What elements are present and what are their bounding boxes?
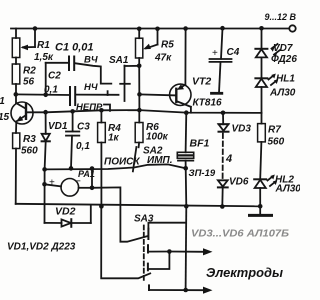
resistor R4 1k: [98, 108, 122, 206]
wire PA1 riser: [91, 169, 93, 188]
svg-text:С4: С4: [227, 47, 240, 58]
wire C2 to contact NCh: [76, 94, 119, 96]
svg-text:56: 56: [23, 77, 35, 88]
node PA1 output junction: [90, 186, 95, 191]
node column junction 1: [42, 167, 47, 172]
wire top power rail: [11, 28, 289, 30]
node bottom junction VD6: [220, 204, 225, 209]
node collector junction of R2: [14, 92, 19, 97]
switch SA1: [109, 55, 139, 101]
wire VT2 base: [140, 94, 177, 95]
svg-text:560: 560: [21, 146, 38, 157]
node R6 top junction: [137, 108, 142, 113]
svg-text:R5: R5: [161, 40, 174, 51]
wire C1 branch vertical: [45, 63, 47, 95]
wire electrode arrow middle: [167, 248, 212, 255]
resistor R3 560: [13, 133, 39, 204]
wire VD1 to PA1 column: [44, 169, 46, 223]
node bottom junction R4 column: [99, 204, 104, 209]
node rail junction dots: [33, 26, 264, 31]
diode VD1: [42, 110, 68, 170]
resistor R7 560: [258, 113, 285, 179]
capacitor C2 0,1: [44, 71, 75, 106]
sounder BF1 ZP-19: [177, 110, 216, 179]
node column junction 2: [42, 182, 47, 187]
node PA1 riser junction: [90, 166, 95, 171]
wire SA2 pole line: [45, 164, 186, 169]
wire R5 to base bus: [138, 66, 140, 110]
svg-text:ЗП-19: ЗП-19: [189, 168, 216, 179]
svg-text:НЧ: НЧ: [84, 82, 98, 93]
svg-text:100к: 100к: [146, 132, 169, 143]
svg-text:VD3: VD3: [232, 124, 252, 135]
svg-text:SA1: SA1: [109, 55, 129, 66]
svg-text:С3: С3: [77, 122, 90, 133]
resistor R6 100k: [135, 110, 168, 147]
node C1 branch junction: [43, 93, 48, 98]
node bottom junction ground: [258, 204, 263, 209]
svg-text:ФД26: ФД26: [271, 54, 297, 65]
wire output bus: [185, 168, 188, 206]
svg-text:+: +: [49, 178, 55, 189]
wire VT1 collector to C1/C2: [16, 93, 70, 96]
wire main base bus: [26, 110, 262, 113]
diode VD2: [45, 206, 91, 227]
svg-text:АЛ30: АЛ30: [275, 184, 301, 195]
node BF1 bottom junction: [183, 166, 188, 171]
svg-text:0,1: 0,1: [44, 85, 58, 96]
transistor VT1 KT315: [0, 94, 33, 133]
LED HL1 AL30: [255, 74, 295, 113]
wire C1 to contact VCh: [75, 63, 112, 83]
svg-text:HL1: HL1: [276, 74, 295, 85]
svg-text:47к: 47к: [154, 53, 172, 64]
svg-text:VD7: VD7: [273, 43, 293, 54]
wire electrode arrow bottom: [149, 287, 213, 294]
node VT2 base junction: [137, 92, 142, 97]
capacitor C3 0,1: [66, 109, 90, 168]
svg-text:КТ816: КТ816: [193, 98, 223, 109]
resistor R1 1,5k potentiometer: [12, 29, 54, 65]
svg-text:VT1: VT1: [0, 96, 5, 107]
svg-text:VD3...VD6 АЛ107Б: VD3...VD6 АЛ107Б: [191, 229, 289, 240]
svg-text:R2: R2: [23, 66, 36, 77]
svg-text:ВЧ: ВЧ: [84, 55, 98, 66]
capacitor C4 electrolytic: [210, 28, 240, 93]
wire bottom common: [16, 204, 261, 207]
svg-text:R1: R1: [37, 40, 50, 51]
resistor R2 56: [12, 64, 36, 94]
switch SA2 lever: [104, 146, 173, 172]
transistor VT2 KT816: [170, 29, 222, 113]
svg-text:+: +: [212, 48, 218, 59]
svg-text:КТ315: КТ315: [0, 112, 10, 123]
svg-text:VD1,VD2 Д223: VD1,VD2 Д223: [7, 242, 76, 253]
diode VD3: [219, 111, 252, 135]
svg-text:Электроды: Электроды: [206, 265, 283, 280]
svg-text:9...12 В: 9...12 В: [265, 12, 297, 22]
ground chassis bottom: [250, 206, 272, 215]
svg-text:АЛ30: АЛ30: [269, 88, 296, 99]
node SA1 output junction: [137, 64, 142, 69]
svg-text:560: 560: [268, 137, 285, 148]
svg-text:VD1: VD1: [48, 121, 68, 132]
svg-text:4: 4: [225, 153, 232, 165]
wire dashed series link x4: [223, 134, 233, 180]
LED HL2 AL30: [254, 175, 301, 207]
node bottom junction bus: [184, 204, 189, 209]
svg-text:ПОИСК: ПОИСК: [104, 157, 140, 168]
diode VD6: [218, 177, 249, 207]
svg-text:1к: 1к: [108, 133, 120, 144]
svg-text:С1 0,01: С1 0,01: [55, 42, 94, 54]
wire PA1 to SA3 upper lever: [92, 187, 147, 241]
node C3 bottom junction: [69, 166, 74, 171]
svg-text:VD6: VD6: [229, 177, 249, 188]
svg-text:С2: С2: [48, 71, 61, 82]
capacitor C1 0,01: [46, 42, 94, 71]
svg-text:VT2: VT2: [192, 76, 211, 88]
svg-text:R7: R7: [268, 125, 281, 136]
ground chassis below C4: [212, 92, 222, 95]
meter PA1: [45, 169, 95, 196]
terminal 9...12V: [265, 12, 297, 32]
svg-text:R3: R3: [23, 134, 36, 145]
node NCh contact tick: [107, 91, 109, 95]
svg-text:1,5к: 1,5к: [34, 52, 54, 63]
switch SA3: [101, 206, 185, 290]
svg-text:0,1: 0,1: [76, 141, 90, 152]
node NEPR contact: [76, 102, 110, 113]
svg-text:VD2: VD2: [55, 206, 76, 218]
resistor R5 47k potentiometer: [136, 29, 175, 66]
photodiode VD7 FD26: [255, 28, 297, 78]
svg-text:BF1: BF1: [190, 138, 210, 150]
